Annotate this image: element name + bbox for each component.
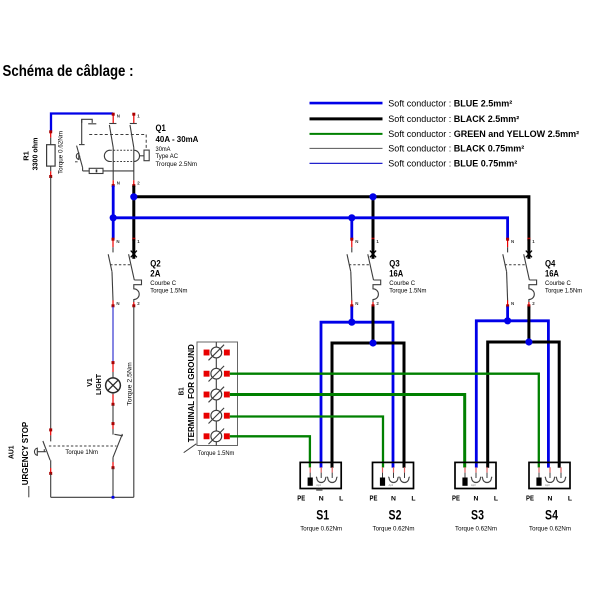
svg-text:N: N [391,495,396,502]
socket outlet S2 [373,462,414,488]
S1 L pin [327,477,337,483]
resistor R1 3300 ohm [50,132,52,138]
svg-text:2A: 2A [150,269,160,279]
svg-text:S4: S4 [545,507,558,522]
node L bus at Q3 [369,193,376,200]
S3 N pin [471,477,481,483]
svg-text:N: N [548,495,553,502]
svg-text:Type AC: Type AC [156,153,179,160]
S1 sub-label smudge [316,489,322,491]
wire PE B1 terminal 5 to S1 (green) [230,436,310,467]
AU1 label underline [28,486,30,497]
socket outlet S1 [300,462,341,488]
Q2 L pole with X contact [132,239,135,259]
legend line BLUE 0.75mm² [310,162,383,164]
B1 label underline [184,444,197,453]
svg-text:Trorque 2.5Nm: Trorque 2.5Nm [156,161,198,168]
svg-text:Torque 2.5Nm: Torque 2.5Nm [126,362,133,406]
B1 ground terminal 4 [211,410,222,421]
AU1 linkage (dashed) [49,445,117,447]
S4 L pin [556,477,566,483]
svg-text:N: N [117,113,120,118]
svg-text:L: L [339,495,343,502]
svg-text:30mA: 30mA [156,146,172,153]
svg-text:Q3: Q3 [389,258,399,268]
svg-text:Torque 1.5Nm: Torque 1.5Nm [198,450,235,457]
svg-text:Courbe C: Courbe C [545,280,571,287]
svg-text:Courbe C: Courbe C [389,280,415,287]
svg-text:3300 ohm: 3300 ohm [31,137,40,170]
Q2 N pole [112,247,114,252]
svg-text:Soft conductor : GREEN and YEL: Soft conductor : GREEN and YELLOW 2.5mm² [388,129,579,139]
wire R1 to AU1 (thin) [50,177,52,430]
svg-text:Torque 0.62Nm: Torque 0.62Nm [300,525,342,532]
Q1 pole conductors [112,148,114,181]
wire N supply (blue) to Q1 and R1 tap [51,114,113,132]
svg-text:Q4: Q4 [545,258,556,268]
svg-text:Ap3: Ap3 [316,483,321,487]
svg-text:N: N [116,301,119,306]
svg-text:Torque 1Nm: Torque 1Nm [65,449,98,456]
emergency stop AU1 pole 2 (lamp side) [112,423,114,429]
svg-text:R1: R1 [21,151,30,161]
node lamp branch to bottom loop [112,496,115,499]
S3 PE pin [462,478,467,486]
Q3 trip linkage (dashed) [349,264,371,266]
terminal 2 out of Q1 [133,180,135,185]
terminal 1 of Q1 [133,114,135,123]
B1 ground terminal 5 [211,431,222,442]
wire PE B1 terminal 2 to S4 (green) [230,374,539,468]
node N distribution Q3 [348,319,355,326]
svg-text:Courbe C: Courbe C [150,280,176,287]
svg-text:URGENCY STOP: URGENCY STOP [21,421,30,485]
terminal 2 out of Q4 [528,302,530,306]
legend line BLACK 0.75mm² [310,147,383,149]
terminal N of Q1 [112,114,114,123]
wire L bus (black) from Q1 to Q2/Q3/Q4 [132,186,135,240]
svg-text:PE: PE [297,495,305,502]
svg-text:AU1: AU1 [7,445,16,459]
terminal N out of Q1 [112,180,114,185]
wire N distribution Q3 to S1/S2 (blue) [350,307,353,323]
svg-text:N: N [355,239,358,244]
svg-text:40A - 30mA: 40A - 30mA [156,134,199,144]
legend line BLACK 2.5mm² [310,117,383,120]
Q2 trip linkage (dashed) [110,264,131,266]
svg-text:V1: V1 [87,378,94,387]
svg-text:Q1: Q1 [156,123,166,133]
svg-text:Ap3: Ap3 [471,483,476,487]
S1 PE pin [308,478,313,486]
node L bus at Q1 output [130,193,137,200]
Q1 test resistor block [144,150,149,161]
terminal N of Q4 [507,239,509,247]
Q3 N pole [351,247,353,252]
Q4 N pole [507,247,509,252]
S4 N pin [545,477,555,483]
terminal N of Q2 [112,239,114,247]
wire L drop to Q3 [372,197,375,239]
svg-text:PE: PE [370,495,378,502]
svg-text:Torque 0.62Nm: Torque 0.62Nm [57,131,64,174]
svg-text:N: N [116,239,119,244]
svg-text:N: N [474,495,479,502]
svg-text:PE: PE [526,495,534,502]
svg-text:16A: 16A [389,269,403,279]
wire L distribution Q3 to S1/S2 (black) [372,307,375,344]
node N bus at Q3 [348,214,355,221]
wire AU1 bottom loop to Q2 L out [50,474,52,498]
node N bus at Q1 output [110,214,117,221]
svg-text:N: N [511,239,514,244]
svg-text:L: L [411,495,415,502]
svg-text:Soft conductor : BLUE 2.5mm²: Soft conductor : BLUE 2.5mm² [388,98,512,108]
Q1 toroid [104,150,110,161]
wire Q2 N out to lamp V1 (thin blue) [112,307,114,363]
S2 PE pin [380,478,385,486]
B1 ground terminal 1 [211,347,222,358]
terminal 1 of Q3 [372,239,374,247]
S1 N pin [316,477,326,483]
socket outlet S3 [455,462,496,488]
svg-text:Ap3: Ap3 [389,483,394,487]
svg-text:N: N [355,301,358,306]
svg-text:S3: S3 [471,507,484,522]
Q4 L pole with X contact [527,239,530,259]
svg-text:LIGHT: LIGHT [96,373,103,395]
terminal 2 out of Q3 [372,302,374,306]
terminal N of Q3 [351,239,353,247]
svg-text:Torque 0.62Nm: Torque 0.62Nm [529,525,571,532]
svg-text:Q2: Q2 [150,258,160,268]
svg-text:Ap3: Ap3 [545,483,550,487]
Q4 trip linkage (dashed) [505,264,527,266]
lamp V1 [112,362,114,372]
terminal N out of Q3 [351,300,353,306]
svg-text:N: N [511,301,514,306]
Q1 test button [76,153,78,159]
Q1 fixed contact bars [109,123,116,125]
wire PE B1 terminal 4 to S2 (green) [230,417,383,468]
terminal 1 of Q4 [528,239,530,247]
Q1 mechanism [82,119,93,123]
svg-text:Schéma de câblage :: Schéma de câblage : [3,63,134,80]
svg-text:Soft conductor : BLUE 0.75mm²: Soft conductor : BLUE 0.75mm² [388,159,517,169]
node L distribution Q3 [369,339,376,346]
B1 ground terminal 3 [211,389,222,400]
node N distribution Q4 [504,317,511,324]
Q3 L pole with X contact [372,239,375,259]
wire lamp V1 to AU1 contact (thin) [112,405,114,424]
svg-text:16A: 16A [545,269,559,279]
wire N drop to Q3 [350,218,353,239]
legend line GREEN and YELLOW 2.5mm² [310,133,383,135]
B1 ground terminal 2 [211,368,222,379]
svg-text:Soft conductor : BLACK 2.5mm²: Soft conductor : BLACK 2.5mm² [388,114,519,124]
wire N bus (blue) from Q1 to Q2/Q3/Q4 [112,186,115,240]
S2 N pin [388,477,398,483]
S2 L pin [399,477,409,483]
AU1 mushroom button actuator [34,448,37,455]
svg-text:Soft conductor : BLACK 0.75mm²: Soft conductor : BLACK 0.75mm² [388,144,524,154]
svg-text:Torque 1.5Nm: Torque 1.5Nm [150,288,187,295]
S4 PE pin [536,478,541,486]
terminal N out of Q4 [507,300,509,306]
svg-text:Torque 1.5Nm: Torque 1.5Nm [389,288,426,295]
Q1 bottom link and test resistor R [82,168,84,171]
wire N distribution Q4 to S3/S4 (blue) [506,307,509,321]
terminal N out of Q2 [112,300,114,306]
terminal 1 of Q2 [133,239,135,247]
svg-text:S1: S1 [316,507,329,522]
terminal block B1 TERMINAL FOR GROUND [197,342,238,446]
S3 L pin [482,477,492,483]
socket outlet S4 [529,462,570,488]
svg-text:TERMINAL FOR GROUND: TERMINAL FOR GROUND [187,344,196,442]
svg-text:Torque 0.62Nm: Torque 0.62Nm [373,525,415,532]
svg-text:Torque 0.62Nm: Torque 0.62Nm [455,525,497,532]
svg-text:N: N [319,495,324,502]
svg-text:N: N [117,181,120,186]
svg-text:S2: S2 [389,507,402,522]
svg-text:B1: B1 [177,387,186,395]
Q1 pole blades [109,125,113,148]
svg-text:PE: PE [452,495,460,502]
legend line BLUE 2.5mm² [310,102,383,105]
node L distribution Q4 [525,338,532,345]
Q1 trip linkage (dashed) [89,134,146,136]
svg-text:L: L [568,495,572,502]
terminal 2 out of Q2 [133,302,135,306]
wire PE B1 terminal 3 to S3 (green) [230,395,465,468]
svg-text:L: L [494,495,498,502]
svg-text:Torque 1.5Nm: Torque 1.5Nm [545,288,582,295]
wire L distribution Q4 to S3/S4 (black) [527,307,530,343]
